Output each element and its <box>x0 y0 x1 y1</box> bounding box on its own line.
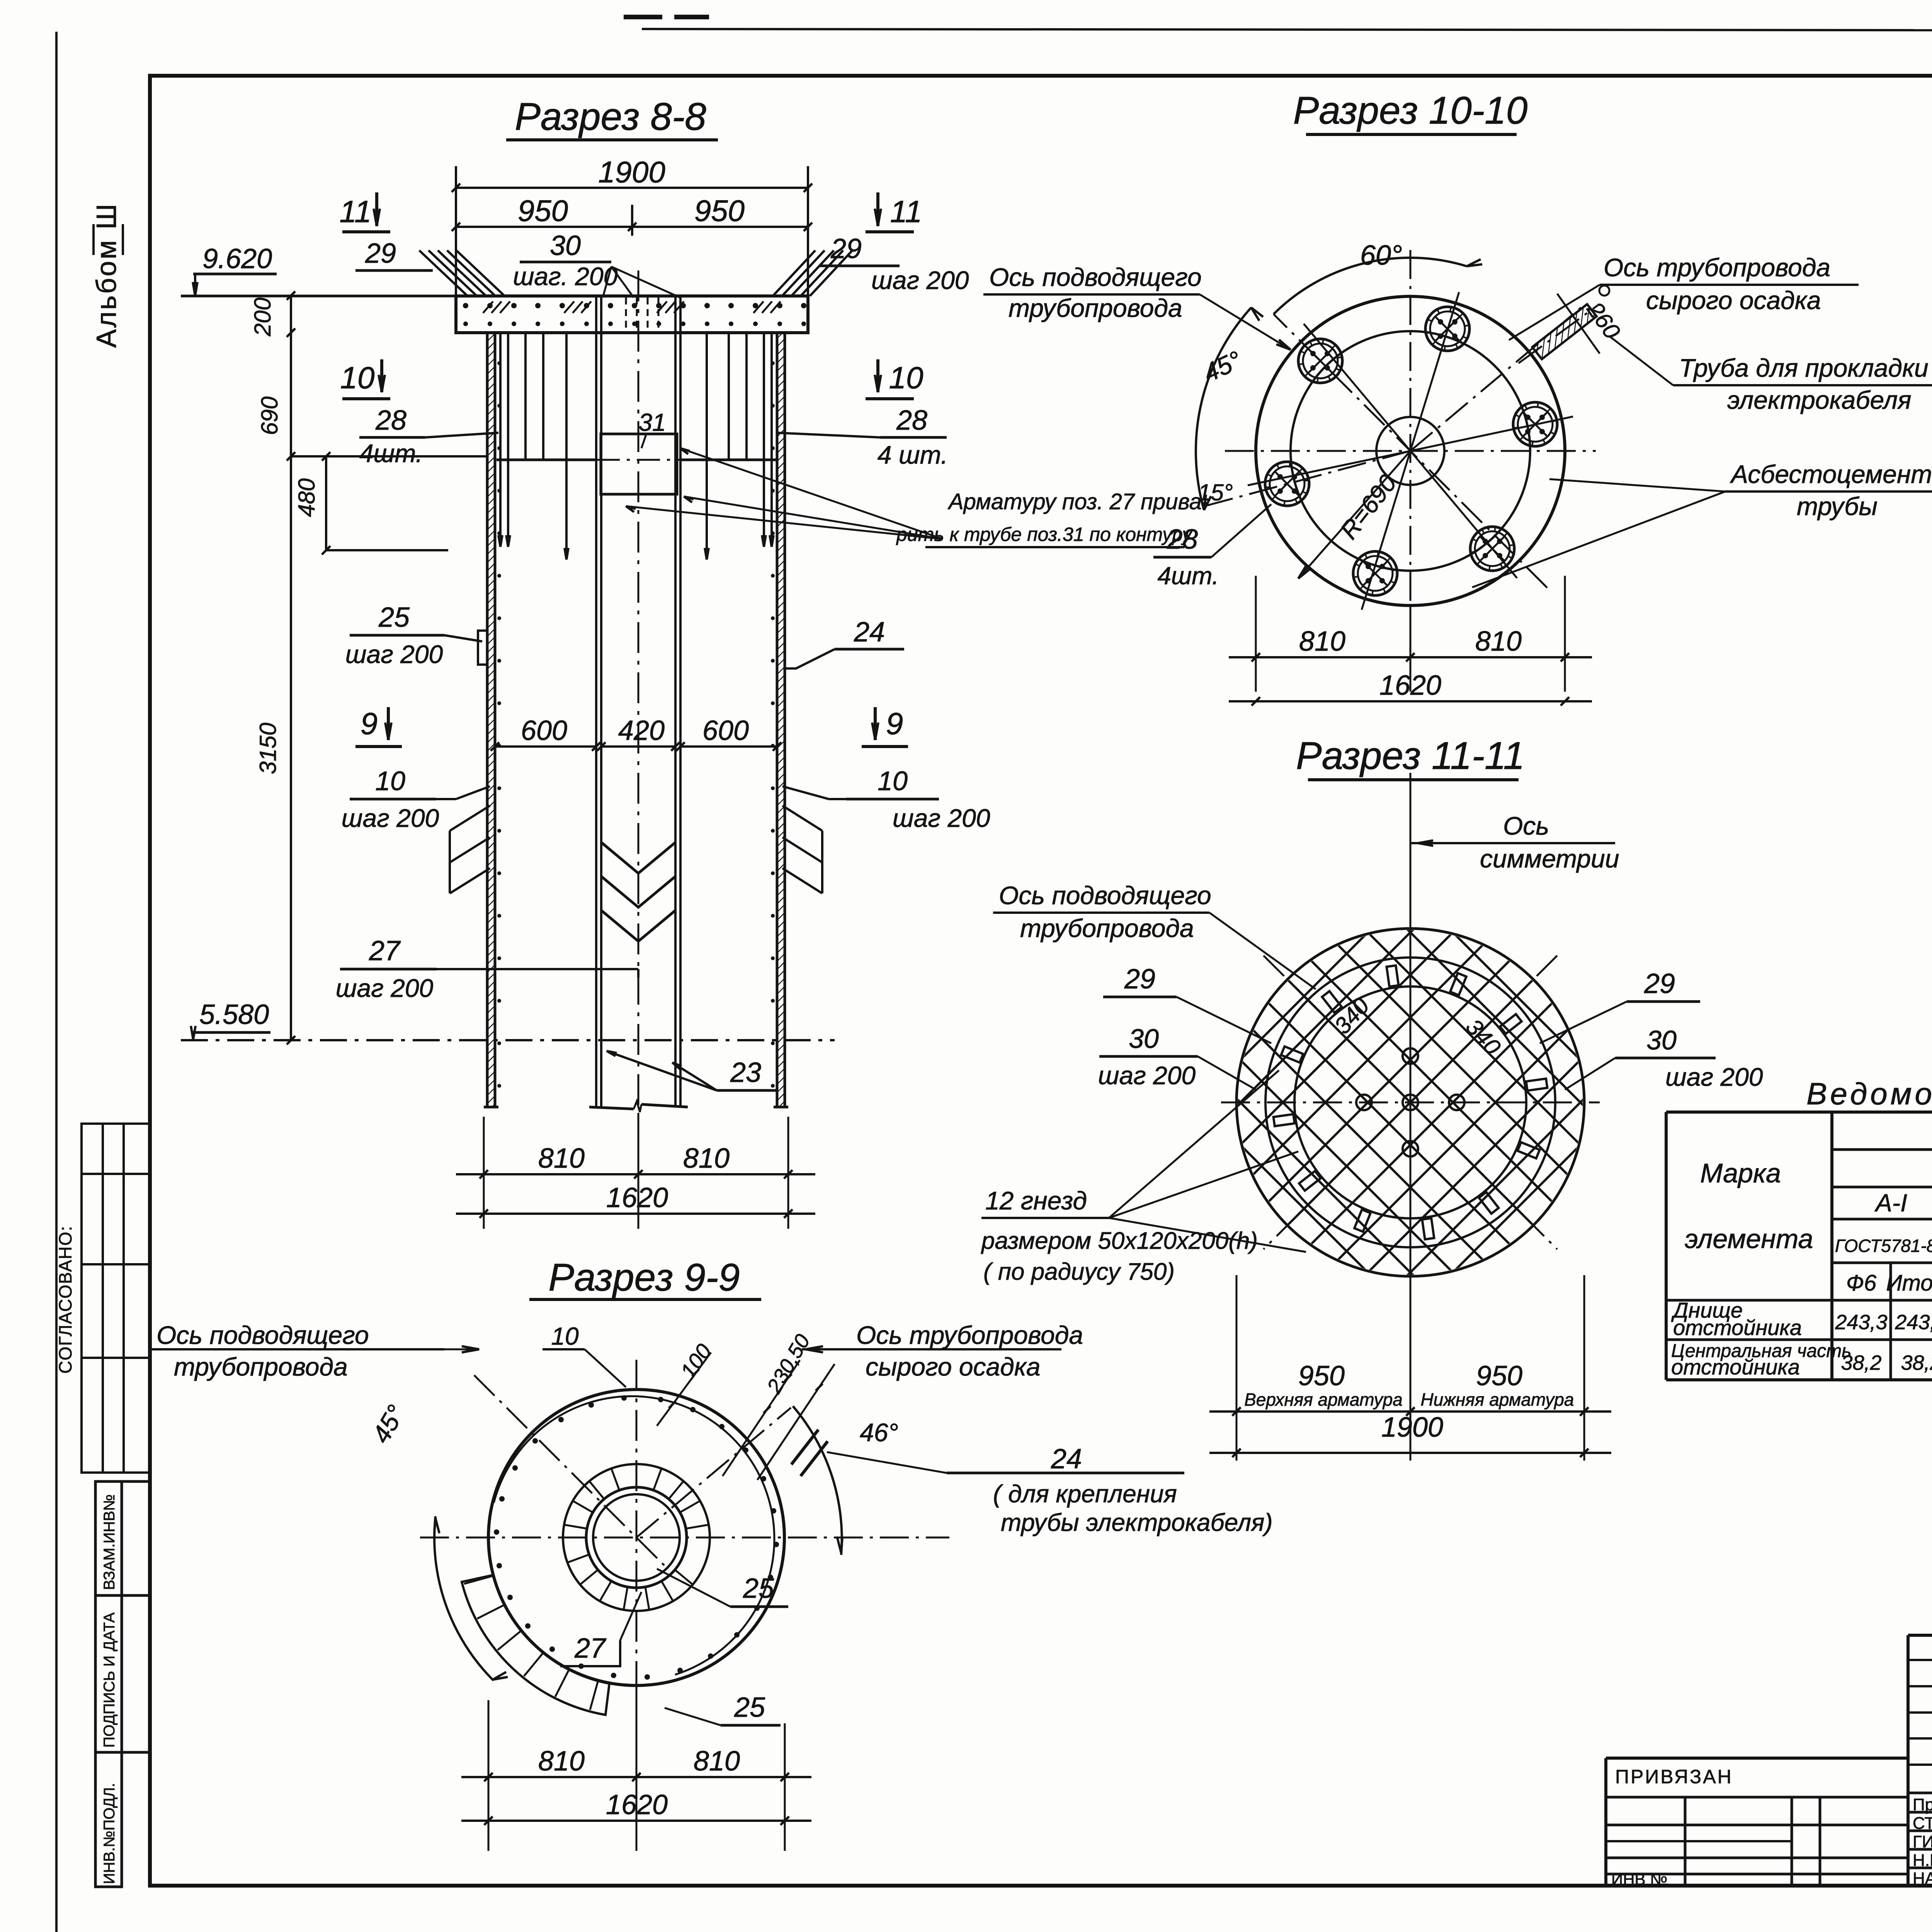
svg-text:1620: 1620 <box>606 1789 668 1820</box>
svg-text:9: 9 <box>886 706 903 741</box>
svg-text:600: 600 <box>702 715 749 746</box>
svg-text:950: 950 <box>1298 1361 1345 1391</box>
svg-text:24: 24 <box>854 617 885 648</box>
svg-text:950: 950 <box>694 194 745 228</box>
svg-text:25: 25 <box>743 1573 774 1604</box>
svg-text:( для крепления: ( для крепления <box>993 1480 1177 1508</box>
svg-text:Ось: Ось <box>1503 811 1549 840</box>
svg-text:11: 11 <box>890 194 922 229</box>
svg-text:Разрез 10-10: Разрез 10-10 <box>1293 89 1528 132</box>
svg-text:10: 10 <box>889 361 923 395</box>
svg-text:Ось трубопровода: Ось трубопровода <box>856 1321 1083 1349</box>
svg-text:элемента: элемента <box>1685 1224 1813 1254</box>
svg-text:810: 810 <box>694 1746 740 1777</box>
svg-text:690: 690 <box>257 396 282 435</box>
svg-text:Асбестоцементные: Асбестоцементные <box>1730 460 1932 488</box>
svg-text:30: 30 <box>1646 1025 1677 1055</box>
svg-text:сырого осадка: сырого осадка <box>866 1352 1041 1381</box>
svg-text:10: 10 <box>375 766 405 796</box>
svg-text:9.620: 9.620 <box>202 243 272 274</box>
svg-text:27: 27 <box>574 1633 607 1664</box>
svg-text:10: 10 <box>551 1322 579 1350</box>
svg-text:Верхняя арматура: Верхняя арматура <box>1244 1389 1403 1410</box>
svg-text:Арматуру поз. 27 прива-: Арматуру поз. 27 прива- <box>947 489 1209 514</box>
svg-text:рить к трубе поз.31 по контуру: рить к трубе поз.31 по контуру <box>896 524 1193 545</box>
svg-text:шаг 200: шаг 200 <box>871 266 969 294</box>
svg-text:480: 480 <box>294 478 320 517</box>
svg-text:15°: 15° <box>1198 480 1233 505</box>
svg-text:Разрез 11-11: Разрез 11-11 <box>1296 734 1525 777</box>
svg-text:Итого: Итого <box>1886 1270 1932 1296</box>
svg-text:60°: 60° <box>1360 240 1402 271</box>
svg-text:27: 27 <box>369 935 401 966</box>
svg-text:4шт.: 4шт. <box>1157 562 1219 590</box>
svg-text:шаг 200: шаг 200 <box>1665 1063 1763 1091</box>
svg-text:30: 30 <box>550 230 581 261</box>
svg-text:симметрии: симметрии <box>1480 844 1619 873</box>
svg-text:( по радиусу 750): ( по радиусу 750) <box>983 1259 1175 1285</box>
svg-text:3150: 3150 <box>255 723 281 774</box>
svg-text:10: 10 <box>340 361 375 395</box>
svg-text:шаг. 200: шаг. 200 <box>513 262 618 291</box>
svg-text:трубопровода: трубопровода <box>1009 294 1182 322</box>
svg-text:Марка: Марка <box>1700 1158 1781 1188</box>
svg-text:5.580: 5.580 <box>199 999 269 1030</box>
svg-text:28: 28 <box>896 405 927 436</box>
svg-text:30: 30 <box>1129 1024 1159 1054</box>
svg-text:шаг 200: шаг 200 <box>345 640 443 668</box>
svg-text:НАЧ.ОТД: НАЧ.ОТД <box>1913 1869 1932 1888</box>
svg-text:Разрез 9-9: Разрез 9-9 <box>548 1256 740 1299</box>
svg-text:Ф6: Ф6 <box>1846 1270 1877 1296</box>
svg-text:46°: 46° <box>860 1418 898 1447</box>
svg-text:810: 810 <box>683 1143 730 1174</box>
svg-text:ИНВ №: ИНВ № <box>1611 1870 1667 1888</box>
svg-text:38,2: 38,2 <box>1841 1351 1881 1374</box>
svg-text:Альбом Ш: Альбом Ш <box>91 202 122 348</box>
svg-text:31: 31 <box>638 408 666 436</box>
svg-text:25: 25 <box>734 1692 765 1723</box>
svg-text:Ось подводящего: Ось подводящего <box>156 1321 369 1349</box>
svg-text:243,3: 243,3 <box>1835 1311 1887 1334</box>
svg-text:шаг 200: шаг 200 <box>1098 1061 1196 1090</box>
svg-text:шаг 200: шаг 200 <box>336 974 434 1002</box>
svg-text:29: 29 <box>1124 964 1155 995</box>
svg-text:отстойника: отстойника <box>1671 1355 1800 1379</box>
svg-text:810: 810 <box>1475 626 1522 657</box>
svg-text:Ось трубопровода: Ось трубопровода <box>1604 253 1830 282</box>
svg-text:ПОДПИСЬ И ДАТА: ПОДПИСЬ И ДАТА <box>101 1612 118 1748</box>
svg-text:ГОСТ5781-82: ГОСТ5781-82 <box>1835 1236 1932 1256</box>
svg-text:810: 810 <box>538 1143 585 1174</box>
svg-text:сырого осадка: сырого осадка <box>1646 286 1821 315</box>
svg-text:шаг 200: шаг 200 <box>342 804 439 832</box>
svg-text:Ведомость: Ведомость <box>1806 1077 1932 1111</box>
svg-text:12 гнезд: 12 гнезд <box>985 1186 1087 1215</box>
svg-text:810: 810 <box>1299 626 1345 657</box>
svg-text:810: 810 <box>538 1746 585 1777</box>
svg-text:Труба для прокладки: Труба для прокладки <box>1679 354 1929 382</box>
svg-text:Разрез 8-8: Разрез 8-8 <box>515 95 706 138</box>
svg-text:ГИП: ГИП <box>1913 1832 1932 1851</box>
svg-text:420: 420 <box>618 715 665 746</box>
svg-text:243,3: 243,3 <box>1895 1311 1932 1334</box>
svg-text:1620: 1620 <box>1379 670 1441 701</box>
svg-text:трубы электрокабеля): трубы электрокабеля) <box>1001 1509 1273 1536</box>
svg-text:трубопровода: трубопровода <box>1020 914 1194 942</box>
svg-text:Ось подводящего: Ось подводящего <box>989 263 1202 291</box>
svg-text:трубопровода: трубопровода <box>174 1352 348 1381</box>
svg-text:Нижняя арматура: Нижняя арматура <box>1421 1389 1574 1410</box>
svg-text:25: 25 <box>378 602 410 633</box>
svg-text:600: 600 <box>521 715 567 746</box>
svg-text:ПРИВЯЗАН: ПРИВЯЗАН <box>1615 1766 1733 1787</box>
svg-text:1900: 1900 <box>1381 1412 1443 1443</box>
svg-text:4шт.: 4шт. <box>359 439 423 468</box>
svg-text:28: 28 <box>375 405 406 436</box>
svg-text:Н.КОНТР: Н.КОНТР <box>1913 1851 1932 1870</box>
svg-text:29: 29 <box>365 238 396 269</box>
svg-text:950: 950 <box>1476 1361 1522 1391</box>
svg-text:Ось подводящего: Ось подводящего <box>999 881 1211 910</box>
svg-text:отстойника: отстойника <box>1673 1315 1802 1340</box>
svg-text:А-I: А-I <box>1874 1189 1907 1217</box>
svg-text:Провер: Провер <box>1913 1795 1932 1814</box>
svg-text:9: 9 <box>361 706 378 741</box>
svg-text:трубы: трубы <box>1797 492 1878 520</box>
svg-text:шаг 200: шаг 200 <box>893 804 990 832</box>
svg-text:29: 29 <box>1644 968 1675 999</box>
svg-text:950: 950 <box>518 194 568 228</box>
svg-text:СТ. ИНЖ: СТ. ИНЖ <box>1913 1814 1932 1833</box>
svg-text:размером 50х120х200(h): размером 50х120х200(h) <box>981 1228 1258 1254</box>
svg-text:11: 11 <box>339 194 371 229</box>
svg-text:38,2: 38,2 <box>1901 1351 1932 1374</box>
svg-text:1900: 1900 <box>598 155 665 189</box>
svg-text:24: 24 <box>1051 1444 1082 1475</box>
svg-text:СОГЛАСОВАНО:: СОГЛАСОВАНО: <box>55 1225 75 1374</box>
svg-text:ВЗАМ.ИНВ№: ВЗАМ.ИНВ№ <box>101 1494 118 1590</box>
svg-text:4 шт.: 4 шт. <box>878 440 948 469</box>
svg-text:200: 200 <box>250 298 276 337</box>
svg-text:28: 28 <box>1167 524 1198 555</box>
svg-text:ИНВ.№ПОДЛ.: ИНВ.№ПОДЛ. <box>101 1783 118 1884</box>
svg-text:электрокабеля: электрокабеля <box>1727 386 1911 414</box>
svg-text:10: 10 <box>878 766 908 796</box>
svg-text:1620: 1620 <box>606 1182 668 1213</box>
svg-text:23: 23 <box>730 1057 761 1088</box>
